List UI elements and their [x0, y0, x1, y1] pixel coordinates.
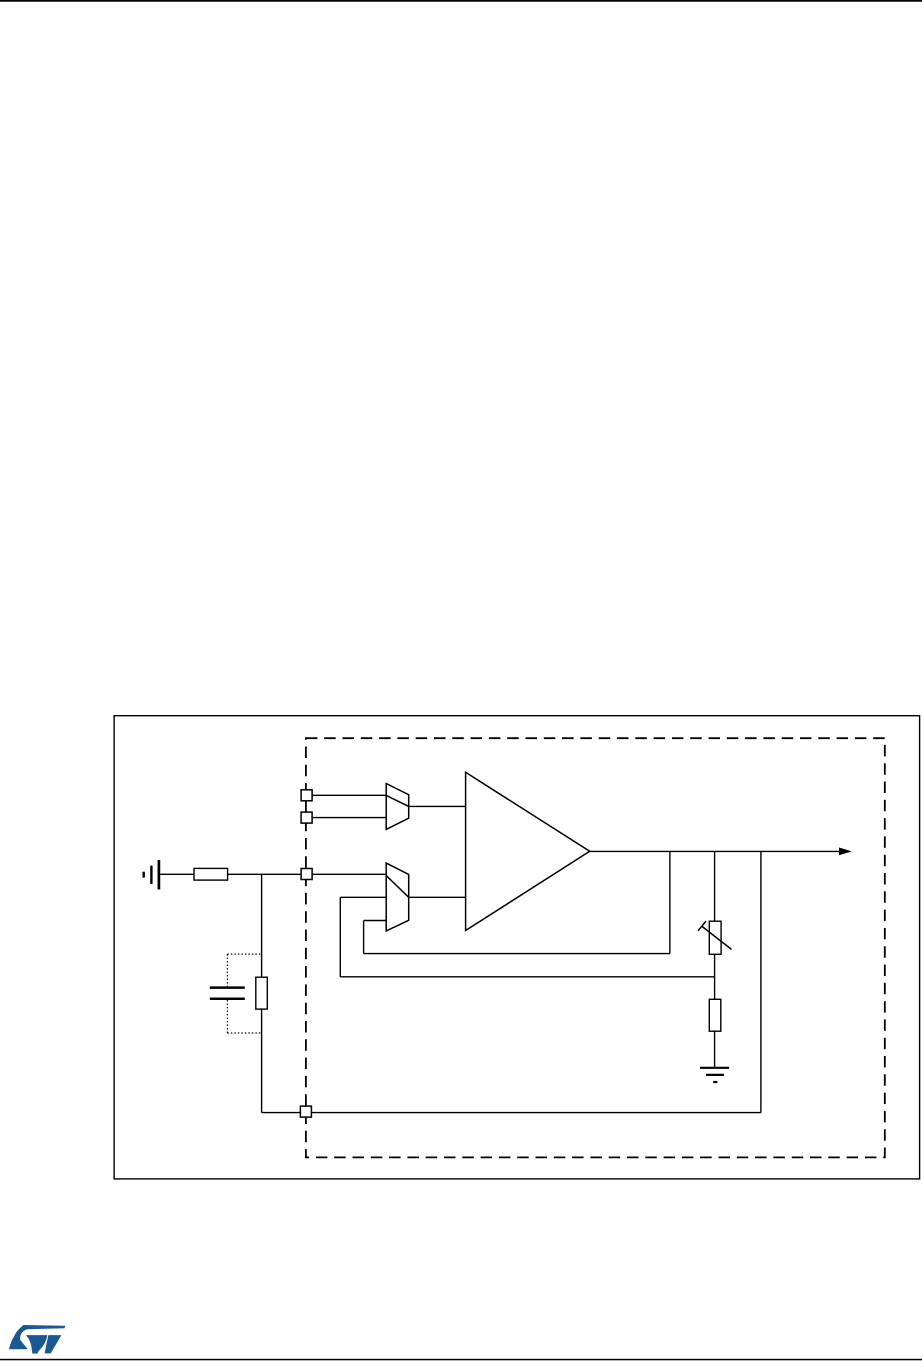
variable resistor R2 diagonal — [702, 926, 732, 949]
wire: divider node to resistor R3 — [714, 977, 716, 1000]
wire: variable resistor R2 to divider node — [714, 954, 716, 977]
wire: op-amp output line — [590, 850, 840, 852]
wire: crystal branch vertical — [261, 874, 263, 1112]
figure frame — [114, 716, 920, 1179]
resistor R3 (bias resistor) — [709, 999, 721, 1031]
variable resistor R2 tee head — [698, 921, 706, 931]
wire: resistor R3 to ground — [714, 1031, 716, 1067]
mux U2 select diagonal — [386, 876, 409, 898]
wire: resistor R1 to pin square P3 — [228, 873, 302, 875]
bottom page rule — [0, 1359, 922, 1361]
pin square P1 — [301, 790, 312, 801]
op-amp U3 — [466, 772, 590, 930]
ground GND2 (below R3) — [700, 1068, 729, 1082]
ST logo — [9, 1325, 66, 1354]
wire: vertical up to mux U2 input 3 — [363, 921, 365, 954]
wire: pin P3 to mux U2 input 1 — [312, 873, 386, 875]
wire: right vertical from output to bottom return — [760, 851, 762, 1112]
wire: horizontal into mux U2 input 2 — [340, 896, 386, 898]
mux U1 body — [386, 784, 409, 830]
wire: pin P2 to mux U1 input 2 — [312, 817, 386, 819]
wire: divider feedback horizontal — [340, 976, 714, 978]
wire: inner feedback horizontal — [364, 953, 670, 955]
pin square P3 — [301, 869, 312, 880]
dashed device boundary box — [306, 738, 885, 1157]
wire: pin P1 to mux U1 input 1 — [312, 794, 386, 796]
dotted crystal shunt path — [227, 954, 261, 1033]
capacitor C1 plates — [210, 988, 245, 999]
wire: horizontal into mux U2 input 3 — [364, 920, 387, 922]
wire: feedback vertical from output node — [669, 851, 671, 953]
variable resistor R2 body — [709, 921, 721, 954]
resistor R1 (series resistor) — [194, 868, 228, 880]
wire: bottom return line through pin P4 — [262, 1112, 761, 1114]
wire: mux U1 output to op-amp input — [409, 805, 466, 807]
mux U2 body — [386, 863, 409, 931]
crystal X1 motional arm box — [256, 977, 267, 1009]
wire: mux U2 output to op-amp input — [409, 896, 466, 898]
ground GND1 (left, rotated) — [144, 860, 159, 890]
wire: vertical up to mux U2 input 2 — [339, 897, 341, 977]
wire: ground to resistor R1 — [160, 873, 194, 875]
output arrowhead — [839, 848, 852, 856]
pin square P4 — [300, 1106, 311, 1117]
wire: output node down to variable resistor R2 — [714, 851, 716, 921]
mux U1 select diagonal — [386, 795, 409, 806]
pin square P2 — [301, 812, 312, 823]
top page rule — [0, 0, 922, 2]
